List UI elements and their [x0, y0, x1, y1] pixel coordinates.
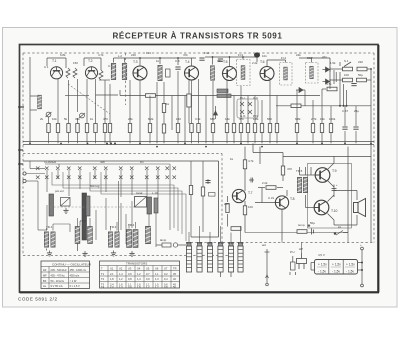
supply wires right [276, 58, 371, 242]
svg-text:1,2: 1,2 [146, 285, 150, 289]
svg-text:0,7: 0,7 [146, 272, 150, 276]
svg-text:50 - 10 kc/s: 50 - 10 kc/s [51, 279, 65, 283]
switch contacts PU cluster [240, 102, 252, 114]
T7 collector resistor [243, 160, 246, 169]
preamp feed vertical A [191, 161, 208, 237]
svg-text:U6: U6 [155, 267, 159, 271]
svg-text:BF: BF [43, 279, 47, 283]
battery wires [311, 247, 363, 287]
IF transformer FI3 dashed can [237, 60, 251, 86]
tuning capacitor CV2 trimmer [79, 113, 85, 118]
svg-text:0,4: 0,4 [164, 277, 168, 281]
driver collector resistor [281, 166, 284, 175]
transistor T8 [275, 196, 294, 209]
oscillator resistors R1 R2 zigzag [66, 68, 103, 80]
svg-text:1,4: 1,4 [119, 272, 123, 276]
svg-text:U2: U2 [119, 267, 123, 271]
tone coil bar A [147, 197, 152, 214]
transistor T3 [133, 60, 147, 80]
dashed separator mid [23, 153, 222, 155]
svg-text:0,9: 0,9 [146, 277, 150, 281]
inner dashed border left [22, 53, 24, 256]
svg-text:U5: U5 [146, 267, 150, 271]
AGC filter bar 2 [217, 94, 231, 98]
PU switch cluster box [237, 99, 258, 118]
varistor arrow [214, 106, 218, 119]
tone coil bar B [154, 198, 158, 213]
svg-text:1,1: 1,1 [155, 272, 159, 276]
transistor T9 [315, 168, 336, 183]
svg-text:1,8: 1,8 [137, 285, 141, 289]
T7 base resistor [226, 204, 229, 213]
components table left [41, 261, 92, 289]
audio transformer TR2 driver [75, 227, 92, 257]
inner dashed border bottom right section [186, 242, 374, 244]
frame edge tick A [18, 106, 24, 108]
svg-text:0,9: 0,9 [128, 272, 132, 276]
pickup connector [290, 256, 296, 275]
interstage transformer [297, 177, 307, 192]
output stage wires [283, 147, 371, 233]
switch wafer bar B dark [82, 193, 87, 240]
svg-text:0,8: 0,8 [128, 277, 132, 281]
svg-text:245 - 520 kHz: 245 - 520 kHz [51, 268, 68, 272]
transistor T4 [185, 60, 199, 80]
section divider dashed RF-IF [125, 53, 127, 105]
svg-text:U4: U4 [137, 267, 141, 271]
svg-text:2,1: 2,1 [110, 272, 114, 276]
antenna coil L1 [38, 95, 42, 109]
lower left section box top [23, 160, 219, 162]
frame edge tick C [18, 163, 23, 165]
audio transformer TR4 [127, 230, 138, 257]
junction dots right supply [339, 68, 372, 107]
bias resistor bottom [297, 230, 307, 234]
headphone jack [297, 253, 307, 269]
svg-text:AL: AL [43, 284, 47, 288]
switch wafer bar A [49, 194, 54, 216]
svg-text:< 1 W: < 1 W [70, 279, 77, 283]
svg-text:0,8: 0,8 [164, 285, 168, 289]
preamp box CB [209, 193, 216, 197]
detector transformer dashed can [306, 63, 319, 84]
lower left section box right [218, 161, 220, 237]
svg-text:0,2: 0,2 [164, 272, 168, 276]
transistor T1 [50, 59, 62, 79]
supply bus line upper [23, 144, 374, 146]
junction dots battery [361, 262, 363, 272]
bias dropper wires group1 [49, 79, 119, 143]
rf amp extra resistors [103, 124, 111, 133]
inner dashed border top [23, 52, 374, 54]
rf amp extra wires [99, 80, 110, 143]
tone choke coil [146, 226, 151, 243]
svg-text:9 V 65 mA: 9 V 65 mA [51, 284, 63, 288]
switch wafer bar B2 [86, 196, 90, 216]
dashed separator vertical mid [221, 154, 223, 256]
bias resistors row group3 [225, 124, 278, 133]
preamp resistor RA [189, 186, 192, 195]
T7 emitter resistor [243, 206, 246, 215]
driver resistor horizontal [266, 186, 276, 190]
transistor T10 [314, 200, 337, 215]
T7 bypass resistor horizontal [231, 227, 241, 231]
battery pack 4,5V [315, 260, 358, 275]
junction dots top rail [139, 56, 244, 59]
svg-text:U1: U1 [110, 267, 114, 271]
connector strip F2 [197, 243, 202, 272]
svg-text:1,7: 1,7 [155, 285, 159, 289]
ground bus line upper [23, 141, 374, 143]
transistor T2 [85, 59, 97, 79]
components table right [100, 261, 180, 288]
svg-text:455 - 1600 c/s: 455 - 1600 c/s [70, 268, 87, 272]
output stage main vertical [228, 143, 284, 232]
volume resistor below T4 [187, 80, 191, 124]
frame edge tick B [18, 149, 23, 151]
driver stage wires [255, 153, 287, 241]
connector strip F4 [218, 243, 223, 277]
svg-text:U7: U7 [164, 267, 168, 271]
antenna earth lead [265, 249, 270, 286]
preamp cap CA [205, 181, 210, 183]
bottom area drop wires [189, 226, 348, 253]
preamp resistor RB [201, 187, 204, 196]
coupling capacitor C7 [199, 58, 204, 60]
svg-text:1,2: 1,2 [119, 277, 123, 281]
dial lamp fuse [156, 243, 186, 247]
svg-text:MF: MF [43, 273, 47, 277]
connector strip F1 [186, 243, 191, 272]
power switch S1 [344, 62, 351, 67]
tuning capacitor CV1 trimmer [46, 112, 52, 117]
audio transformer TR1 [44, 232, 55, 256]
tone pot box [135, 197, 147, 208]
coupling capacitor C5 [175, 67, 180, 69]
supply cap C40 [334, 70, 336, 84]
lower left drop wires [38, 198, 156, 244]
detector load wires [297, 90, 356, 143]
inner dashed border bottom left section [23, 255, 230, 257]
svg-text:6 x 1,5 V: 6 x 1,5 V [70, 284, 81, 288]
transistor T6 [260, 60, 274, 81]
bias dropper wires group2 [130, 71, 213, 143]
IF transformer FI2 [211, 66, 215, 80]
IF transformer FI1 [158, 65, 170, 80]
connector strip F5 [228, 243, 233, 277]
transformer row link wires [47, 218, 157, 247]
table cell entries [43, 267, 177, 290]
lower left section box bottom partial [191, 236, 219, 238]
volume on-off switch [334, 231, 348, 236]
inner dashed border right [373, 53, 375, 243]
loudspeaker HP [354, 199, 366, 217]
top feed wires [47, 57, 330, 70]
svg-text:455 - 470 kc: 455 - 470 kc [51, 273, 66, 277]
connector strip F6 [238, 243, 243, 272]
connector strip F3 [207, 243, 212, 272]
value labels speckle [40, 51, 363, 287]
AGC filter bar [217, 89, 228, 93]
oscillator coil transformer [111, 64, 126, 80]
svg-text:2,0: 2,0 [110, 285, 114, 289]
electrolytic bottom [308, 224, 314, 235]
switch bank wires [26, 161, 170, 230]
mechanical link dashed [50, 206, 134, 208]
transistor T7 [232, 189, 252, 202]
svg-text:1,3: 1,3 [119, 285, 123, 289]
wafer ground [63, 208, 68, 214]
nested feedback loop rectangles [52, 172, 186, 241]
svg-text:0,9: 0,9 [128, 285, 132, 289]
supply resistor network right [327, 67, 367, 91]
svg-text:TR: TR [173, 267, 177, 271]
supply diode D3 [323, 79, 331, 84]
AGC line wire [120, 90, 320, 96]
svg-text:1,4: 1,4 [137, 277, 141, 281]
svg-text:-: - [43, 268, 44, 271]
AGC resistor R12 [146, 94, 156, 98]
output stage box outline [308, 164, 352, 229]
bias dropper wires group3 [227, 81, 277, 144]
switch bank row 1 contacts [36, 167, 176, 171]
tuning gang dashed link [68, 84, 110, 114]
ink blob volume mark [254, 52, 260, 57]
drawing frame border [20, 45, 380, 293]
detector load resistors [295, 124, 358, 133]
svg-text:1,2: 1,2 [137, 272, 141, 276]
svg-text:455 kc/s: 455 kc/s [70, 273, 80, 277]
input terminals PU [23, 172, 26, 183]
output coupling capacitor [332, 189, 337, 191]
detector diode D1 [296, 88, 305, 93]
supply diode D2 [323, 67, 331, 72]
AGC pill resistor mid [291, 104, 301, 108]
coupling capacitor C9 [218, 59, 223, 61]
transistor T5 [223, 60, 237, 81]
bias resistors row group2 [128, 104, 214, 134]
switch bank row 2 contacts [36, 176, 176, 180]
audio transformer TR3 [108, 232, 119, 256]
antenna down lead wire [30, 57, 37, 143]
junction dots main bus [29, 142, 372, 147]
volume potentiometer box [61, 198, 71, 207]
svg-text:1,3: 1,3 [155, 277, 159, 281]
IF transformer FI4 dashed can [280, 63, 293, 86]
preamp capacitor C30 [249, 178, 254, 183]
svg-text:U3: U3 [128, 267, 132, 271]
bias resistors row group1 [47, 124, 97, 133]
svg-text:1,8: 1,8 [110, 277, 114, 281]
